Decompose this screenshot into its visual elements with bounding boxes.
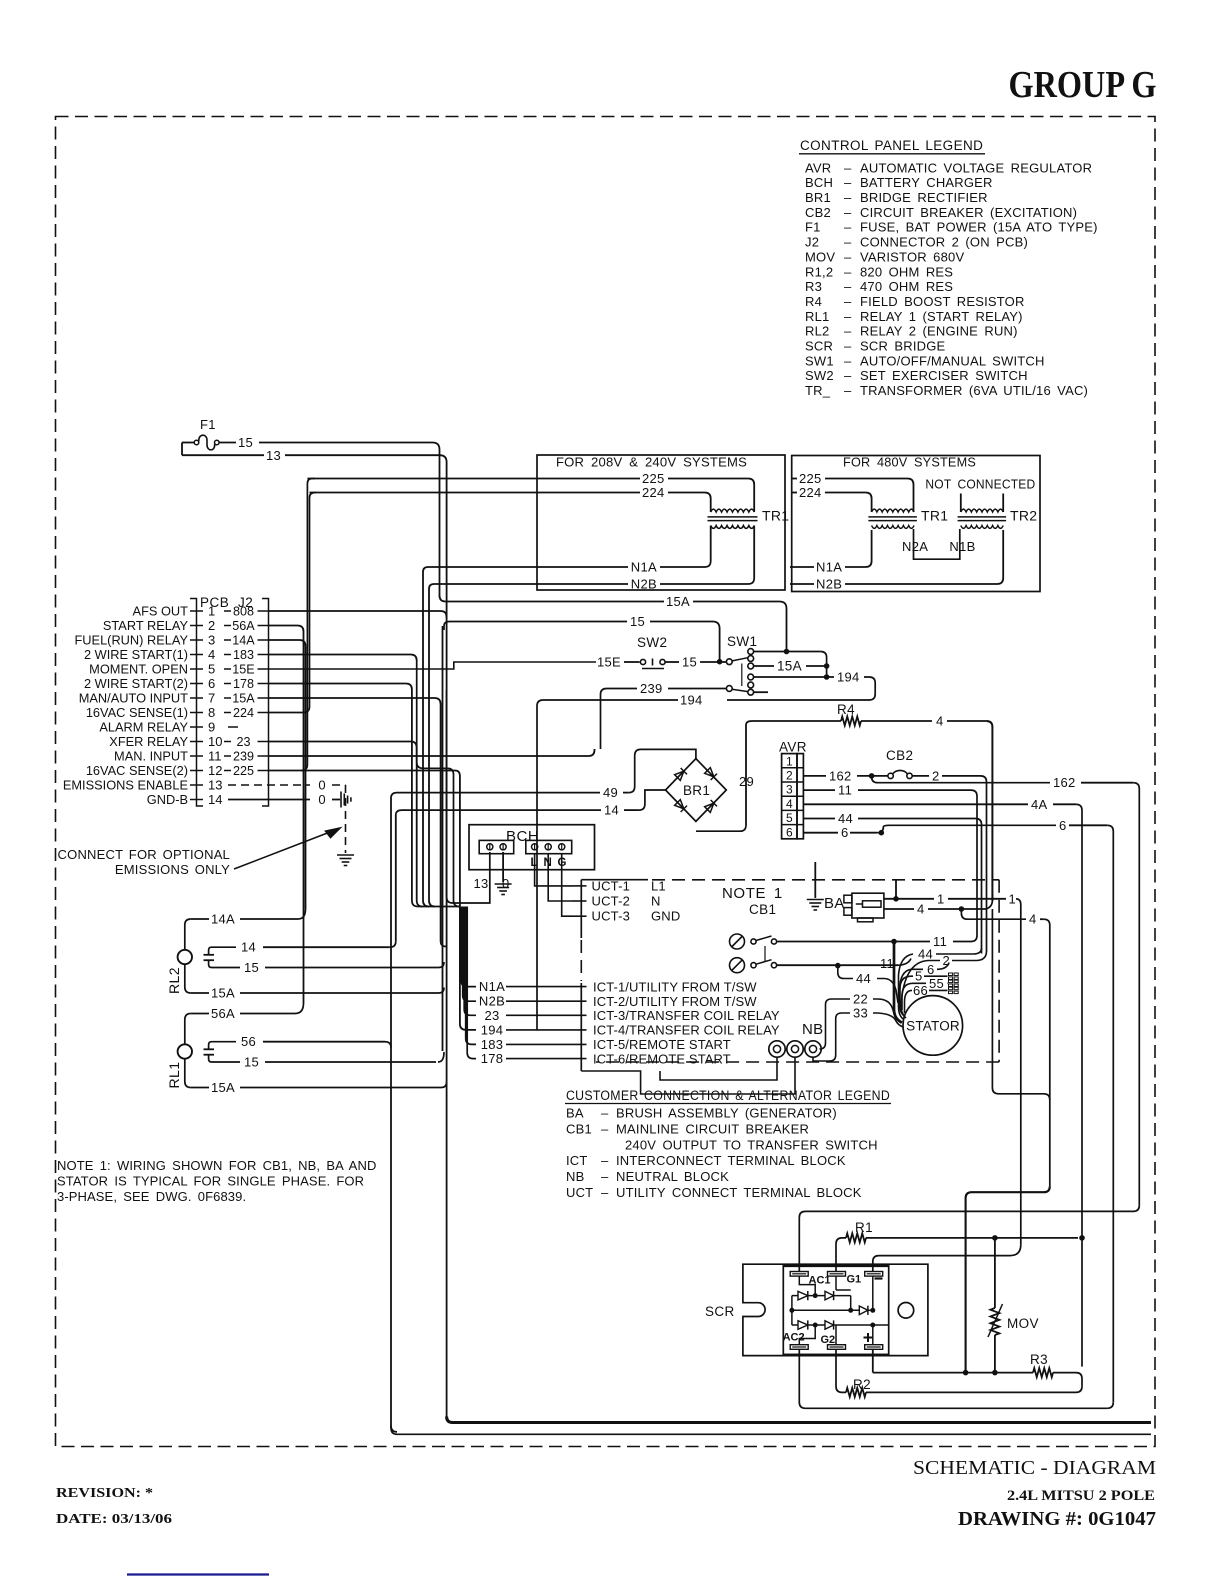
svg-text:RELAY 1 (START RELAY): RELAY 1 (START RELAY) — [860, 309, 1023, 324]
dashed box NOTE 1 (alternator section) — [652, 879, 999, 881]
SW1 pole arms and link — [732, 658, 748, 661]
svg-text:FOR 208V & 240V SYSTEMS: FOR 208V & 240V SYSTEMS — [556, 455, 747, 470]
wire 44 (AVR pin 5) — [803, 818, 835, 820]
svg-text:239: 239 — [640, 681, 663, 696]
svg-text:GROUP G: GROUP G — [1009, 64, 1157, 106]
svg-text:808: 808 — [233, 605, 254, 619]
svg-text:N1B: N1B — [949, 539, 975, 554]
svg-text:6: 6 — [208, 676, 215, 691]
svg-text:–: – — [601, 1106, 609, 1121]
svg-text:225: 225 — [233, 764, 254, 778]
svg-text:UCT-3: UCT-3 — [592, 909, 631, 924]
svg-text:ICT-2/UTILITY FROM T/SW: ICT-2/UTILITY FROM T/SW — [593, 994, 757, 1009]
svg-text:BRIDGE RECTIFIER: BRIDGE RECTIFIER — [860, 190, 988, 205]
feeder merge bus — [418, 906, 460, 908]
svg-text:14A: 14A — [232, 634, 255, 648]
svg-text:ICT-4/TRANSFER COIL RELAY: ICT-4/TRANSFER COIL RELAY — [593, 1023, 780, 1038]
svg-text:BA: BA — [824, 895, 845, 912]
wire 224 (480 box) — [792, 492, 797, 494]
wire N1A (480 box) — [790, 566, 814, 568]
svg-text:MAN. INPUT: MAN. INPUT — [114, 749, 188, 764]
svg-text:AVR: AVR — [805, 160, 831, 175]
svg-text:NEUTRAL BLOCK: NEUTRAL BLOCK — [616, 1169, 729, 1184]
svg-text:15E: 15E — [232, 663, 254, 677]
svg-text:15A: 15A — [232, 692, 255, 706]
svg-text:66: 66 — [913, 983, 928, 998]
svg-text:J2: J2 — [805, 235, 819, 250]
svg-text:2: 2 — [932, 768, 940, 783]
svg-text:ICT-1/UTILITY FROM T/SW: ICT-1/UTILITY FROM T/SW — [593, 979, 757, 994]
stator — [903, 996, 963, 1056]
svg-text:6: 6 — [927, 962, 935, 977]
svg-text:N1A: N1A — [816, 560, 842, 575]
wire 14 vertical down to RL2 — [395, 815, 397, 941]
BA ground — [814, 862, 816, 898]
wire 11 (CB1 top) — [777, 941, 890, 943]
svg-text:R4: R4 — [805, 294, 822, 309]
svg-text:MAN/AUTO INPUT: MAN/AUTO INPUT — [79, 691, 188, 706]
wire 4 (BA) — [884, 908, 914, 910]
svg-text:178: 178 — [481, 1051, 504, 1066]
svg-text:R3: R3 — [805, 279, 822, 294]
svg-text:SW2: SW2 — [637, 635, 667, 650]
svg-text:–: – — [844, 279, 852, 294]
svg-text:4: 4 — [917, 902, 925, 917]
svg-text:–: – — [844, 324, 852, 339]
svg-text:SW1: SW1 — [727, 634, 757, 649]
blue underline mark — [127, 1573, 269, 1575]
relay RL2 contact — [204, 954, 215, 956]
svg-text:22: 22 — [853, 992, 868, 1007]
svg-text:CONNECTOR 2 (ON PCB): CONNECTOR 2 (ON PCB) — [860, 235, 1028, 250]
svg-text:FOR 480V SYSTEMS: FOR 480V SYSTEMS — [843, 455, 976, 470]
wire 0 (pin13, dashed emissions enable) — [228, 784, 310, 786]
svg-text:N2B: N2B — [631, 577, 657, 592]
svg-text:G2: G2 — [821, 1334, 836, 1346]
svg-text:DRAWING #: 0G1047: DRAWING #: 0G1047 — [958, 1508, 1156, 1530]
svg-text:1: 1 — [786, 754, 793, 768]
arrow to emissions ground — [234, 832, 330, 869]
svg-text:L1: L1 — [651, 878, 666, 893]
wire 0 from BCH to ground — [502, 852, 504, 882]
svg-text:56: 56 — [241, 1034, 256, 1049]
BR1 diodes — [674, 767, 717, 812]
svg-text:29: 29 — [739, 774, 754, 789]
wire N2B (480 box) — [790, 583, 814, 585]
svg-text:ICT-3/TRANSFER COIL RELAY: ICT-3/TRANSFER COIL RELAY — [593, 1008, 780, 1023]
svg-text:15A: 15A — [211, 986, 235, 1001]
svg-text:RL1: RL1 — [166, 1062, 182, 1089]
svg-text:0: 0 — [318, 778, 325, 793]
svg-text:UCT: UCT — [566, 1185, 593, 1200]
NB leads — [820, 1005, 826, 1050]
svg-text:178: 178 — [233, 677, 254, 691]
svg-text:CONTROL PANEL LEGEND: CONTROL PANEL LEGEND — [800, 138, 983, 153]
svg-text:14: 14 — [241, 940, 256, 955]
wire 15E (pin5) — [269, 662, 597, 669]
svg-text:15: 15 — [682, 655, 697, 670]
terminal UCT rows — [572, 885, 587, 887]
short feeders to ICT rows — [461, 907, 476, 987]
svg-text:VARISTOR 680V: VARISTOR 680V — [860, 249, 964, 264]
wire 224 row — [310, 492, 641, 494]
svg-text:START RELAY: START RELAY — [103, 618, 189, 633]
svg-text:SW2: SW2 — [805, 368, 834, 383]
svg-text:BR1: BR1 — [805, 190, 831, 205]
svg-text:16VAC SENSE(2): 16VAC SENSE(2) — [86, 763, 188, 778]
terminal box ICT (left/bottom edges) — [580, 983, 582, 1071]
wire 224 (pin8) — [269, 712, 304, 714]
svg-text:15: 15 — [244, 1055, 259, 1070]
wire N2B feeder down — [429, 584, 435, 907]
SCR pad stubs — [799, 1276, 815, 1296]
svg-text:AFS OUT: AFS OUT — [133, 604, 189, 619]
svg-text:NB: NB — [802, 1021, 823, 1038]
bus (thin) bottom — [391, 1428, 1151, 1434]
svg-text:6: 6 — [786, 825, 793, 839]
svg-text:2: 2 — [786, 769, 793, 783]
wire 55 terminal — [902, 983, 926, 1010]
svg-text:239: 239 — [233, 750, 254, 764]
wire 2 (CB2 out) — [912, 775, 929, 777]
wire 44 upper row from AVR bundle — [936, 948, 982, 954]
svg-text:194: 194 — [680, 693, 703, 708]
svg-text:DATE: 03/13/06: DATE: 03/13/06 — [56, 1512, 172, 1527]
svg-text:10: 10 — [208, 734, 222, 749]
wire 0 (pin14) and ground GND-B — [228, 799, 310, 801]
wire 44 (CB1 bottom) — [777, 964, 834, 966]
transformer TR1 (208/240) — [711, 509, 755, 512]
wire 6 (AVR pin 6) — [803, 832, 838, 834]
svg-text:RL1: RL1 — [805, 309, 829, 324]
wire N1A feeder down — [423, 567, 429, 907]
svg-text:16VAC SENSE(1): 16VAC SENSE(1) — [86, 705, 188, 720]
svg-text:RL2: RL2 — [805, 324, 829, 339]
svg-text:4A: 4A — [1031, 797, 1048, 812]
svg-text:15: 15 — [244, 960, 259, 975]
svg-text:N: N — [651, 893, 661, 908]
svg-text:GND-B: GND-B — [147, 792, 188, 807]
svg-text:–: – — [601, 1153, 609, 1168]
svg-text:4: 4 — [208, 647, 215, 662]
svg-text:CUSTOMER CONNECTION & ALTERNAT: CUSTOMER CONNECTION & ALTERNATOR LEGEND — [566, 1088, 890, 1103]
svg-text:820 OHM RES: 820 OHM RES — [860, 264, 953, 279]
bridge rectifier BR1 — [666, 759, 727, 822]
svg-text:BRUSH ASSEMBLY (GENERATOR): BRUSH ASSEMBLY (GENERATOR) — [616, 1106, 837, 1121]
svg-text:TR1: TR1 — [921, 508, 948, 524]
svg-text:RELAY 2 (ENGINE RUN): RELAY 2 (ENGINE RUN) — [860, 324, 1018, 339]
svg-text:14A: 14A — [211, 912, 235, 927]
svg-text:SW1: SW1 — [805, 353, 834, 368]
wire 194 from SW1 — [754, 676, 834, 678]
svg-text:11: 11 — [880, 956, 894, 971]
svg-text:–: – — [844, 353, 852, 368]
svg-text:N1A: N1A — [479, 979, 505, 994]
svg-text:G1: G1 — [847, 1274, 862, 1286]
wire from SW1 row A to 15A/194 junction — [754, 651, 821, 653]
battery charger BCH — [469, 825, 595, 870]
wire 15A (SW1 row C) — [754, 665, 774, 667]
svg-text:15E: 15E — [597, 655, 621, 670]
BCH L/N/G wires to UCT — [535, 853, 572, 886]
svg-text:FUEL(RUN) RELAY: FUEL(RUN) RELAY — [74, 633, 188, 648]
svg-text:SET EXERCISER SWITCH: SET EXERCISER SWITCH — [860, 368, 1028, 383]
svg-text:N2A: N2A — [902, 539, 928, 554]
svg-text:183: 183 — [481, 1037, 504, 1052]
svg-text:F1: F1 — [200, 417, 216, 432]
svg-text:BA: BA — [566, 1106, 584, 1121]
svg-text:XFER RELAY: XFER RELAY — [109, 734, 188, 749]
wire 225 vertical (pin12 to TR boxes) — [301, 479, 315, 771]
svg-text:TRANSFORMER (6VA UTIL/16 VAC): TRANSFORMER (6VA UTIL/16 VAC) — [860, 383, 1088, 398]
svg-text:TR_: TR_ — [805, 383, 831, 398]
svg-text:11: 11 — [208, 749, 222, 764]
wire 1 to SCR minus — [873, 1245, 1021, 1272]
wire 162 bypass under CB2 — [872, 776, 1050, 783]
svg-text:33: 33 — [853, 1006, 868, 1021]
svg-text:GND: GND — [651, 909, 681, 924]
junction 15 at SW1 pole — [719, 655, 721, 662]
svg-text:ALARM RELAY: ALARM RELAY — [99, 720, 188, 735]
svg-text:TR1: TR1 — [762, 508, 789, 524]
spade terminals 5/55/66 — [949, 973, 953, 976]
SCR terminal pads — [790, 1272, 808, 1277]
svg-text:R1,2: R1,2 — [805, 264, 833, 279]
svg-text:162: 162 — [1053, 775, 1076, 790]
wire 15A to SW1 — [440, 596, 662, 602]
wire 49 vertical down to bus — [390, 798, 392, 1428]
wire 2 into stator — [952, 951, 987, 961]
wire 225 row — [307, 478, 640, 480]
svg-text:11: 11 — [933, 934, 947, 949]
svg-text:23: 23 — [236, 735, 250, 749]
svg-text:14: 14 — [604, 803, 619, 818]
svg-text:15: 15 — [238, 435, 253, 450]
svg-text:UCT-2: UCT-2 — [592, 893, 631, 908]
svg-text:AUTO/OFF/MANUAL SWITCH: AUTO/OFF/MANUAL SWITCH — [860, 353, 1045, 368]
svg-text:NOTE 1: WIRING SHOWN FOR CB1,: NOTE 1: WIRING SHOWN FOR CB1, NB, BA AND — [57, 1158, 376, 1173]
svg-text:4: 4 — [786, 797, 793, 811]
svg-text:CB1: CB1 — [749, 902, 776, 917]
wire 239 (pin11) — [269, 749, 595, 756]
svg-text:5: 5 — [786, 811, 793, 825]
ICT-5 feeder (183) — [417, 661, 460, 907]
wire 225 (480 box) — [792, 478, 797, 480]
wire 33 — [836, 1013, 850, 1019]
svg-text:–: – — [601, 1121, 609, 1136]
svg-text:194: 194 — [837, 670, 860, 685]
wire 13 to BCH — [446, 690, 448, 897]
svg-text:49: 49 — [603, 785, 618, 800]
svg-text:–: – — [844, 175, 852, 190]
svg-text:12: 12 — [208, 763, 222, 778]
svg-text:44: 44 — [838, 811, 853, 826]
svg-text:–: – — [844, 383, 852, 398]
svg-text:6: 6 — [841, 825, 849, 840]
svg-text:–: – — [844, 309, 852, 324]
svg-text:–: – — [844, 160, 852, 175]
svg-text:N1A: N1A — [631, 560, 657, 575]
wire 4A (AVR pin 4) — [803, 803, 1028, 805]
svg-text:–: – — [844, 264, 852, 279]
svg-text:2 WIRE START(1): 2 WIRE START(1) — [84, 647, 188, 662]
svg-text:UTILITY CONNECT TERMINAL BLOCK: UTILITY CONNECT TERMINAL BLOCK — [616, 1185, 862, 1200]
svg-text:N2B: N2B — [816, 577, 842, 592]
wire 162 (AVR pin 2) — [803, 775, 826, 777]
wire 162 to SCR AC1 — [799, 1205, 1139, 1271]
wire 56A (pin2) — [269, 626, 304, 634]
wire 15 (fuse output) — [219, 442, 236, 444]
svg-text:13: 13 — [208, 778, 222, 793]
svg-text:194: 194 — [481, 1022, 504, 1037]
wire 224 vertical (pin8 to TR boxes) — [304, 493, 317, 713]
svg-text:8: 8 — [208, 705, 215, 720]
svg-text:224: 224 — [799, 485, 822, 500]
svg-text:56A: 56A — [211, 1006, 235, 1021]
wire N2A / N1B link — [914, 529, 960, 559]
svg-text:FIELD BOOST RESISTOR: FIELD BOOST RESISTOR — [860, 294, 1025, 309]
terminal box UCT (solid corner) — [581, 879, 648, 881]
svg-text:ICT-6/REMOTE START: ICT-6/REMOTE START — [593, 1051, 731, 1066]
varistor MOV — [994, 1238, 996, 1308]
svg-text:224: 224 — [642, 485, 665, 500]
wire 14 to BR1 — [396, 810, 601, 815]
svg-text:SCHEMATIC - DIAGRAM: SCHEMATIC - DIAGRAM — [913, 1457, 1156, 1479]
wire 1 (BA) — [884, 898, 934, 900]
svg-text:15A: 15A — [777, 659, 802, 674]
svg-text:FUSE, BAT POWER (15A ATO TYPE): FUSE, BAT POWER (15A ATO TYPE) — [860, 220, 1098, 235]
svg-text:MOV: MOV — [1007, 1316, 1039, 1331]
svg-text:44: 44 — [856, 971, 871, 986]
svg-text:NOT CONNECTED: NOT CONNECTED — [925, 477, 1035, 492]
svg-text:–: – — [601, 1169, 609, 1184]
svg-text:15A: 15A — [211, 1080, 235, 1095]
svg-text:1: 1 — [208, 604, 215, 619]
NB to ICT links — [581, 1057, 795, 1094]
svg-text:ICT-5/REMOTE START: ICT-5/REMOTE START — [593, 1037, 731, 1052]
svg-text:SCR BRIDGE: SCR BRIDGE — [860, 339, 946, 354]
wire 66 terminal — [905, 990, 913, 1013]
svg-text:AUTOMATIC VOLTAGE REGULATOR: AUTOMATIC VOLTAGE REGULATOR — [860, 160, 1092, 175]
svg-text:240V OUTPUT TO TRANSFER SWITCH: 240V OUTPUT TO TRANSFER SWITCH — [625, 1137, 878, 1152]
svg-text:SCR: SCR — [705, 1304, 735, 1319]
svg-text:23: 23 — [484, 1008, 499, 1023]
wire 15A (pin7) — [269, 698, 441, 705]
wire 6 to SCR AC2 — [799, 1349, 1107, 1408]
wire 22 — [826, 999, 851, 1005]
svg-text:F1: F1 — [805, 220, 821, 235]
svg-text:–: – — [844, 249, 852, 264]
svg-text:–: – — [844, 190, 852, 205]
svg-text:–: – — [844, 235, 852, 250]
relay RL1 contact — [204, 1048, 215, 1050]
svg-text:BR1: BR1 — [683, 783, 710, 798]
wire 29 (BR1 to R4) — [745, 725, 747, 825]
svg-text:3-PHASE, SEE DWG. 0F6839.: 3-PHASE, SEE DWG. 0F6839. — [57, 1189, 246, 1204]
svg-text:–: – — [844, 294, 852, 309]
svg-text:44: 44 — [918, 947, 933, 962]
svg-text:AVR: AVR — [779, 740, 807, 755]
wire 15 vertical to relays — [442, 626, 444, 1051]
svg-text:3: 3 — [208, 633, 215, 648]
svg-text:EMISSIONS ONLY: EMISSIONS ONLY — [115, 862, 230, 877]
svg-text:2 WIRE START(2): 2 WIRE START(2) — [84, 676, 188, 691]
wire 44 into stator — [838, 966, 853, 979]
svg-text:5: 5 — [208, 662, 215, 677]
wire N2B (208 box) — [753, 526, 755, 579]
wire 5 terminal — [900, 976, 913, 1007]
box FOR 480V SYSTEMS — [792, 456, 1040, 592]
svg-text:BCH: BCH — [506, 828, 539, 845]
wire 239 to SW1 — [601, 689, 638, 750]
svg-text:ICT: ICT — [566, 1153, 588, 1168]
svg-text:162: 162 — [829, 768, 852, 783]
svg-text:4: 4 — [1029, 912, 1037, 927]
svg-text:NB: NB — [566, 1169, 584, 1184]
wire 183 (pin4) — [269, 655, 417, 662]
svg-text:–: – — [844, 205, 852, 220]
svg-text:9: 9 — [208, 720, 215, 735]
wire 4 jog to R3 area — [966, 1186, 1050, 1372]
wire 14A (pin3) — [269, 640, 306, 647]
bus (thick) bottom — [447, 1417, 1151, 1423]
wire 178 (pin6) — [269, 684, 412, 691]
svg-text:RL2: RL2 — [166, 967, 182, 994]
wire 11 (AVR pin 3) — [803, 789, 835, 791]
svg-text:MAINLINE CIRCUIT BREAKER: MAINLINE CIRCUIT BREAKER — [616, 1121, 809, 1136]
svg-text:R3: R3 — [1030, 1352, 1048, 1367]
svg-text:13: 13 — [266, 448, 281, 463]
svg-text:2.4L MITSU 2 POLE: 2.4L MITSU 2 POLE — [1007, 1488, 1155, 1504]
svg-text:NOTE 1: NOTE 1 — [722, 885, 783, 902]
svg-text:225: 225 — [642, 471, 665, 486]
svg-text:STATOR IS TYPICAL FOR SINGLE P: STATOR IS TYPICAL FOR SINGLE PHASE. FOR — [57, 1174, 364, 1189]
svg-text:15A: 15A — [666, 594, 690, 609]
svg-text:1: 1 — [1009, 891, 1017, 906]
SCR inner diodes and wires — [792, 1295, 798, 1297]
svg-text:UCT-1: UCT-1 — [592, 878, 631, 893]
box FOR 208V & 240V SYSTEMS — [537, 455, 785, 590]
svg-text:5: 5 — [915, 969, 923, 984]
wire N1A (208 box) — [710, 526, 712, 562]
svg-text:EMISSIONS ENABLE: EMISSIONS ENABLE — [63, 778, 188, 793]
svg-text:–: – — [844, 368, 852, 383]
svg-text:225: 225 — [799, 471, 822, 486]
svg-text:INTERCONNECT TERMINAL BLOCK: INTERCONNECT TERMINAL BLOCK — [616, 1153, 846, 1168]
relay RL1 coil — [178, 1044, 192, 1058]
svg-text:–: – — [844, 339, 852, 354]
svg-text:–: – — [601, 1185, 609, 1200]
svg-text:6: 6 — [1059, 818, 1067, 833]
svg-text:BCH: BCH — [805, 175, 833, 190]
wire 11 into stator (thick) — [894, 942, 902, 1023]
ICT-3 feeder — [416, 748, 418, 901]
ground (emissions option) — [337, 854, 354, 856]
svg-text:CIRCUIT BREAKER (EXCITATION): CIRCUIT BREAKER (EXCITATION) — [860, 205, 1077, 220]
transformer TR2 (480, not connected) — [961, 509, 1003, 512]
wire 23 (pin10) — [269, 742, 417, 749]
wire 808 (pin1) — [269, 611, 447, 618]
svg-text:55: 55 — [929, 976, 944, 991]
wire 15 row to SW1 — [444, 622, 627, 631]
svg-text:N2B: N2B — [479, 994, 505, 1009]
relay RL2 coil — [178, 950, 192, 964]
SW1 row F stub — [754, 691, 768, 693]
svg-text:MOMENT. OPEN: MOMENT. OPEN — [89, 662, 188, 677]
wire 6 into stator — [937, 963, 949, 970]
svg-text:MOV: MOV — [805, 249, 835, 264]
transformer TR1 (480) — [872, 509, 914, 512]
